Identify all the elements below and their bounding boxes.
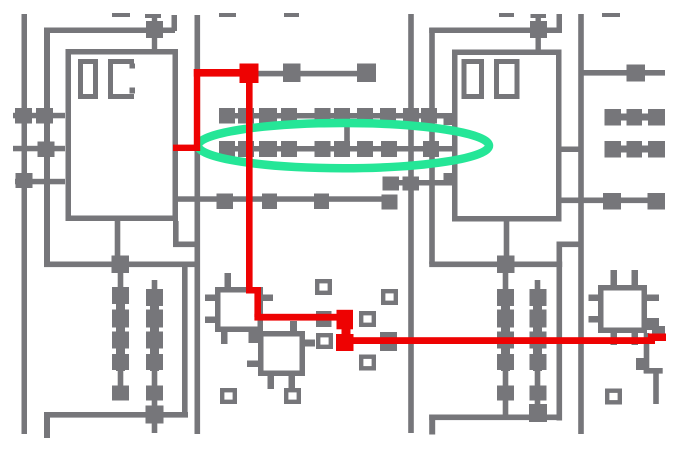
- wire Q3 tail down: [644, 333, 650, 373]
- top silkscreen dash 1: [112, 13, 130, 17]
- wire jog horizontal y244: [173, 242, 198, 248]
- wire center vertical x411: [408, 14, 414, 433]
- red stub from U1 right edge: [173, 145, 200, 151]
- wire row L1: [13, 113, 65, 119]
- op-amp U1 chip DC outline: [66, 49, 179, 221]
- wire corner from U2 pin pad east then up: [546, 28, 562, 34]
- wire row3b elevated line: [387, 180, 452, 186]
- label DD letter D2: [494, 59, 499, 99]
- wire horizontal y414 left: [44, 412, 188, 418]
- top silkscreen dash 4: [499, 13, 514, 17]
- label DC letter D: [78, 59, 83, 99]
- Q1 left pins: [205, 295, 216, 302]
- junction pad J2: [497, 256, 515, 274]
- pad L3a: [16, 173, 33, 188]
- wire stub down at x47: [44, 412, 50, 438]
- red horizontal y317: [254, 314, 338, 321]
- wire short vertical linking row1-row2: [344, 116, 350, 150]
- wire U1 bottom stub: [115, 221, 121, 261]
- red horizontal y73: [194, 69, 241, 77]
- via hollow H9: [607, 391, 620, 403]
- red jog vertical: [254, 290, 261, 317]
- via hollow H5: [318, 335, 331, 347]
- wire V-mid x185: [182, 264, 188, 417]
- pad L2a: [38, 142, 55, 158]
- pad on U1 top pin: [146, 21, 163, 38]
- wire V2 second vertical: [44, 28, 50, 267]
- pad crossed by long red line: [380, 332, 397, 351]
- via hollow H2: [383, 291, 396, 303]
- wire horizontal y264: [44, 262, 197, 268]
- red vertical x249: [246, 82, 253, 293]
- wire Q3 tail east: [644, 368, 663, 374]
- top silkscreen dash 3: [284, 13, 299, 17]
- wire top horizontal to U1 pin pad: [44, 28, 175, 34]
- red long horizontal y340: [351, 337, 655, 344]
- pads row1: [219, 108, 235, 124]
- resistor chain RN3 column C: [503, 273, 509, 415]
- junction pad J1: [112, 256, 130, 274]
- wire row1 center: [219, 113, 452, 119]
- U1 top pin stub: [152, 37, 157, 50]
- resistor chain RN4 column D: [535, 280, 541, 410]
- pad L1a: [15, 108, 32, 124]
- wire V1 left vertical: [22, 14, 28, 434]
- via hollow H7: [222, 390, 235, 402]
- Q1 bottom pins: [221, 332, 228, 344]
- transistor Q1 small chip outline: [215, 287, 263, 332]
- op-amp U2 chip DD outline: [452, 50, 562, 222]
- pad on U2 top pin: [530, 21, 547, 38]
- pad on that wire 1: [283, 64, 301, 83]
- resistor chain RN2 column B: [152, 280, 158, 433]
- wire top right horizontal with pad: [581, 70, 665, 76]
- Q3 bottom pins: [611, 333, 618, 345]
- pads group right row R2: [605, 141, 622, 158]
- wire center vertical x432: [429, 28, 435, 264]
- wire row L2: [13, 146, 65, 152]
- wire stub down at x432: [429, 415, 435, 435]
- red end jog: [648, 334, 666, 342]
- top silkscreen dash 2: [219, 13, 236, 17]
- red pad node B upper: [337, 310, 354, 330]
- wire corner stub up right of U1 pin: [172, 15, 178, 31]
- U2 bottom stub: [504, 221, 510, 257]
- transistor Q2 small chip outline: [258, 331, 305, 376]
- junction pad J3 column B on y414: [146, 406, 164, 424]
- pads row2: [219, 141, 235, 157]
- Q1 top pin: [225, 273, 232, 288]
- Q2 left pin: [247, 361, 258, 368]
- wire long vertical x581: [578, 14, 584, 434]
- via hollow H1: [317, 281, 330, 293]
- pads row3: [217, 194, 234, 210]
- wire vertical x559: [557, 242, 563, 421]
- Q1 bottom right pad: [249, 331, 263, 343]
- pads row3b: [383, 177, 400, 191]
- red neck: [342, 328, 351, 335]
- Q3 top pins: [611, 270, 618, 285]
- junction pad J4 column D on y417: [529, 404, 547, 422]
- transistor Q3 small chip outline: [598, 285, 647, 333]
- Q3 left pins: [589, 295, 599, 302]
- wire horizontal y264 right: [429, 262, 562, 268]
- pad crossed by red near R4: [316, 311, 332, 327]
- pads group right row R1: [605, 109, 622, 126]
- Q1 right pin: [262, 295, 273, 302]
- via hollow H8: [286, 390, 299, 402]
- pin pad T-bar above U2: [531, 14, 547, 18]
- red vertical x197: [194, 69, 200, 151]
- wire right jog horizontal y244: [557, 242, 582, 248]
- Q3 corner step pad: [647, 318, 659, 330]
- wire Q3 tail down 2: [653, 368, 659, 404]
- wire row3 line: [178, 196, 390, 202]
- pad L1b: [36, 108, 53, 124]
- pads row R3: [603, 193, 621, 210]
- red jog connector: [246, 287, 261, 294]
- Q2 bottom pins: [268, 376, 275, 389]
- green highlight ellipse: [198, 123, 489, 168]
- pad on Q3 tail: [636, 358, 647, 370]
- wire long vertical x197: [195, 15, 201, 434]
- via hollow H3: [361, 313, 374, 325]
- pad on that wire 2: [357, 64, 376, 83]
- U2 left edge pin nubs: [444, 115, 453, 125]
- wire top horizontal to U2 pin pad: [429, 28, 532, 34]
- red pad node A: [240, 64, 259, 84]
- wire east of red node A: [255, 71, 360, 77]
- wire row2 center: [219, 146, 452, 152]
- pad at red line end: [652, 326, 665, 339]
- via hollow H6: [361, 357, 374, 369]
- pin pad T-bar above U1: [145, 14, 161, 18]
- top silkscreen dash 5: [602, 13, 620, 17]
- label DC letter C: [108, 59, 113, 99]
- wire horizontal y417 right: [429, 415, 561, 421]
- U2 top pin stub: [536, 37, 541, 50]
- label DD letter D1: [462, 59, 467, 99]
- Q2 right pin: [304, 340, 315, 347]
- wire connector U2 edge to x581: [561, 147, 579, 153]
- pad on top right wire: [627, 65, 646, 82]
- red pad node B lower: [336, 334, 354, 351]
- Q3 right pin: [647, 295, 659, 302]
- resistor chain RN1 column A: [118, 273, 124, 400]
- wire U1 right edge extension down: [173, 221, 179, 247]
- wire right row R3: [561, 198, 665, 204]
- wire row L3: [15, 179, 65, 185]
- Q2 top right pin: [290, 321, 297, 331]
